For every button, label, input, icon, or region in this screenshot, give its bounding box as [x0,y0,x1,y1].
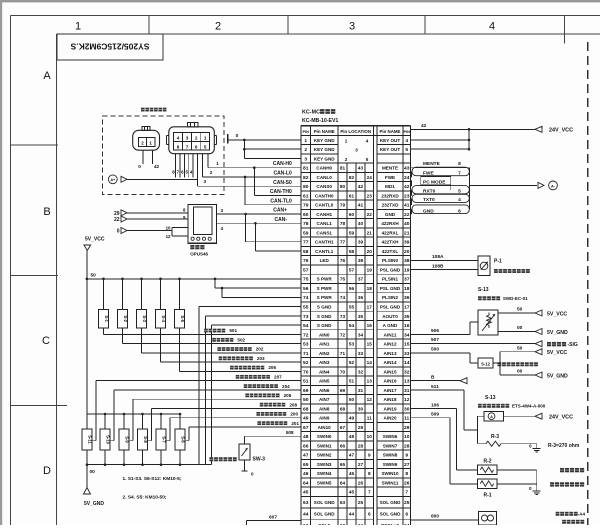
svg-text:1: 1 [345,138,348,143]
pressure sensor S-4 [159,278,162,281]
svg-text:SOL GND: SOL GND [314,512,336,517]
svg-text:52: 52 [303,360,309,366]
svg-text:1: 1 [149,141,152,146]
svg-text:CAN-H0: CAN-H0 [273,161,292,167]
svg-text:36: 36 [358,295,364,300]
connector J2 (8-pin) body [169,127,215,154]
svg-text:RXT0: RXT0 [423,189,436,195]
svg-text:-SIG: -SIG [567,342,577,348]
svg-text:46: 46 [303,471,309,477]
connector J2 latch [188,122,199,127]
5V_GND symbol [86,465,88,488]
pressure sensor S-3 [140,278,143,281]
GND connector bar [412,205,469,214]
svg-text:5: 5 [405,147,408,153]
svg-text:AIN17: AIN17 [383,388,396,393]
svg-text:10: 10 [404,434,410,440]
connector J1 pin stub 0 [142,150,144,164]
pilot pressure sensor S-12 [478,358,493,368]
svg-text:CANH0: CANH0 [316,166,332,171]
svg-text:204: 204 [282,384,290,389]
5V bus to lower sensors [87,413,180,415]
svg-text:39: 39 [404,240,410,246]
FWE connector bar [412,167,469,176]
svg-text:202: 202 [256,347,264,352]
svg-text:9: 9 [368,453,371,458]
svg-text:SWIN4: SWIN4 [317,471,332,476]
svg-text:CANTL1: CANTL1 [315,249,334,254]
svg-text:53: 53 [349,342,355,347]
svg-text:82: 82 [349,175,355,180]
svg-text:422RXL: 422RXL [382,230,399,235]
svg-text:57: 57 [349,268,355,273]
grid row tick C|D [11,405,68,407]
svg-text:2: 2 [141,141,144,146]
svg-text:35: 35 [404,314,410,320]
svg-text:AIN16: AIN16 [383,379,396,384]
oil temp sensor left vertical [477,415,484,417]
oil temp sensor to 24V_VCC [504,415,535,417]
svg-text:00: 00 [90,469,96,475]
svg-text:17: 17 [404,305,410,311]
svg-text:FWE: FWE [385,175,395,180]
svg-text:48: 48 [349,434,355,439]
svg-text:0: 0 [529,486,532,491]
svg-text:CANS1: CANS1 [316,230,332,235]
svg-text:PIN: PIN [302,129,309,134]
svg-text:44: 44 [303,512,309,518]
S-12 to 5V_GND [500,374,535,376]
svg-text:AIN13: AIN13 [383,351,396,356]
svg-text:33: 33 [404,351,410,357]
svg-text:507: 507 [431,337,439,343]
svg-text:Pin NAME: Pin NAME [380,129,401,134]
svg-text:PSL GND: PSL GND [380,305,401,310]
svg-text:0: 0 [529,444,532,449]
svg-text:28: 28 [404,443,410,449]
svg-text:5: 5 [366,157,369,162]
svg-text:53: 53 [303,342,309,348]
svg-text:4: 4 [405,138,408,144]
svg-text:20: 20 [367,249,373,254]
svg-text:75: 75 [303,277,309,283]
svg-text:CANS0: CANS0 [316,184,332,189]
svg-text:A+: A+ [110,178,116,182]
svg-text:A: A [43,70,51,82]
svg-text:51: 51 [349,379,355,384]
pressure sensor S-9 [123,413,126,416]
svg-text:SW-3: SW-3 [253,457,266,463]
svg-text:32: 32 [404,369,410,375]
wire pin3 to CAN-S0 row80 [196,154,198,187]
svg-text:69: 69 [303,388,309,394]
svg-text:AIN11: AIN11 [384,332,397,337]
svg-text:34: 34 [404,332,410,338]
svg-text:42: 42 [154,164,160,169]
svg-text:17: 17 [367,305,373,310]
svg-text:8: 8 [177,144,180,149]
svg-text:24V_VCC: 24V_VCC [549,128,573,134]
svg-text:SWIN5: SWIN5 [317,480,332,485]
svg-text:S-2: S-2 [123,315,128,322]
svg-text:3: 3 [349,21,355,33]
wire 600 bottom row42 [411,519,479,521]
svg-text:64: 64 [340,480,346,485]
svg-text:3: 3 [204,179,207,184]
wire key to KEY GND row1 [228,139,301,141]
svg-text:C: C [42,335,50,347]
svg-text:201: 201 [291,421,299,426]
svg-text:21: 21 [404,230,410,236]
svg-text:KEY OUT: KEY OUT [380,138,401,143]
svg-text:81: 81 [340,166,346,171]
oil temp sensor body [484,411,504,421]
svg-text:AIN4: AIN4 [319,369,330,374]
svg-text:29: 29 [114,211,120,217]
svg-text:232TXD: 232TXD [382,203,400,208]
svg-text:5V_VCC: 5V_VCC [547,311,567,317]
svg-text:7: 7 [458,170,461,176]
svg-text:S PWR: S PWR [317,295,333,300]
svg-text:22: 22 [404,212,410,218]
svg-text:SOL GND: SOL GND [380,500,402,505]
svg-text:27: 27 [358,462,364,467]
svg-text:58: 58 [349,249,355,254]
svg-text:AIN5: AIN5 [319,379,330,384]
svg-text:14: 14 [404,360,410,366]
svg-text:77: 77 [340,240,346,245]
svg-text:MENTE: MENTE [382,166,398,171]
svg-text:MD1: MD1 [385,184,395,189]
svg-text:S-11: S-11 [88,435,93,444]
svg-text:35: 35 [358,314,364,319]
svg-text:R-3=270 ohm: R-3=270 ohm [548,443,580,449]
svg-text:S-12: S-12 [481,361,491,366]
svg-text:70: 70 [303,369,309,375]
svg-text:422TXH: 422TXH [382,240,400,245]
svg-text:S GND: S GND [317,305,332,310]
branch CAN-L0 to CAN-TL0 row79 [244,176,247,179]
svg-text:49: 49 [303,416,309,422]
svg-text:78: 78 [303,221,309,227]
svg-text:CANH1: CANH1 [316,212,332,217]
wire pin2 to CAN-L0 row82 [202,154,204,177]
svg-text:4: 4 [366,138,369,143]
wire A+ to pin3 [127,178,197,180]
svg-text:2: 2 [304,147,307,153]
svg-text:SWIN11: SWIN11 [382,480,399,485]
svg-text:S-13: S-13 [485,395,496,401]
connector J2 pin grid [174,133,210,151]
svg-text:SWIN9: SWIN9 [383,462,398,467]
svg-text:55: 55 [349,305,355,310]
svg-text:203: 203 [257,356,265,361]
svg-text:71: 71 [340,351,346,356]
svg-text:56: 56 [349,286,355,291]
grid column tick 2|3 [287,16,289,35]
svg-text:AIN6: AIN6 [319,388,330,393]
display pin3 wire CAN+ row60 [217,213,301,215]
00 ground rail [87,464,212,466]
svg-text:SWIN2: SWIN2 [317,453,332,458]
S-13 to 5V_VCC [498,312,535,314]
resistor R-1 [477,479,497,489]
svg-text:75: 75 [340,277,346,282]
grid column tick right of 4 [564,16,566,44]
grid column tick 3|4 [424,16,426,35]
svg-text:65: 65 [340,462,346,467]
svg-text:CAN-L0: CAN-L0 [273,171,292,177]
svg-text:27: 27 [404,462,410,468]
svg-text:7: 7 [186,144,189,149]
svg-text:52: 52 [349,360,355,365]
table rows text [303,138,410,529]
connector J1 (2-pin) body [133,130,160,150]
drawing frame inner border [57,33,600,35]
svg-text:18: 18 [404,286,410,292]
svg-text:AIN7: AIN7 [319,397,330,402]
svg-text:29: 29 [358,425,364,430]
svg-text:2: 2 [345,157,348,162]
svg-text:6: 6 [195,144,198,149]
svg-text:S-8: S-8 [143,436,148,443]
svg-text:18: 18 [367,286,373,291]
svg-text:PLSIN1: PLSIN1 [382,277,399,282]
svg-text:CANL0: CANL0 [317,175,333,180]
svg-text:108A: 108A [432,254,444,260]
svg-text:76: 76 [340,258,346,263]
S GND wire row54 [212,324,302,326]
svg-text:26: 26 [358,480,364,485]
svg-text:4: 4 [221,226,224,231]
svg-text:74: 74 [303,295,309,301]
svg-text:73: 73 [340,314,346,319]
svg-text:R-2: R-2 [483,459,491,465]
page scan edge left [0,0,2,525]
wire to off-page A- [469,184,537,186]
svg-text:502: 502 [237,337,245,342]
svg-text:S-10: S-10 [106,435,111,445]
svg-text:81: 81 [303,166,309,172]
svg-text:45: 45 [303,490,309,496]
svg-text:3: 3 [186,136,189,141]
svg-text:65: 65 [303,462,309,468]
svg-text:607: 607 [269,514,277,520]
pressure sensor S-10 [104,413,107,416]
level sensor S-13 body [478,310,498,335]
svg-text:4: 4 [177,136,180,141]
key line stub tick [227,134,229,143]
svg-text:15: 15 [367,342,373,347]
svg-text:1: 1 [204,136,207,141]
label oil pressure switch [209,457,213,461]
svg-text:26: 26 [404,480,410,486]
junction key row1 [243,139,246,142]
svg-text:CAN+: CAN+ [273,208,287,214]
svg-text:43: 43 [404,166,410,172]
svg-text:63: 63 [303,500,309,506]
svg-text:AIN9: AIN9 [319,416,330,421]
svg-text:5V_VCC: 5V_VCC [547,350,567,356]
svg-text:232RXD: 232RXD [381,193,399,198]
svg-text:KEY OUT: KEY OUT [380,147,401,152]
svg-text:R-1: R-1 [483,493,491,499]
svg-text:36: 36 [404,295,410,301]
grid row tick B|C [11,274,59,276]
svg-text:49: 49 [349,416,355,421]
svg-text:59: 59 [303,230,309,236]
svg-text:506: 506 [431,328,439,334]
svg-text:S-6: S-6 [181,436,186,443]
svg-text:3: 3 [221,208,224,213]
S-13 to 5V_GND [498,331,535,333]
svg-text:74: 74 [340,295,346,300]
svg-text:0: 0 [236,133,239,139]
wire 0 to pins 10 12 [127,230,172,232]
wire 500 row24 [411,352,471,354]
svg-text:CAN-TL0: CAN-TL0 [270,198,292,204]
svg-text:10: 10 [166,226,171,231]
svg-text:40: 40 [404,221,410,227]
svg-text:600: 600 [431,513,439,519]
diagnostic interface label [141,108,145,112]
svg-text:50: 50 [517,307,523,313]
svg-text:47: 47 [349,453,355,458]
svg-text:0: 0 [251,472,254,477]
svg-text:50: 50 [517,345,523,351]
branch CAN- to row58 [254,222,257,225]
svg-text:SWIN3: SWIN3 [317,462,332,467]
svg-text:54: 54 [349,323,355,328]
svg-text:13: 13 [404,379,410,385]
svg-text:10: 10 [367,434,373,439]
svg-text:29: 29 [404,425,410,431]
svg-text:7: 7 [368,490,371,495]
svg-text:S-4: S-4 [161,315,166,322]
svg-text:31: 31 [404,388,410,394]
svg-text:68: 68 [340,406,346,411]
svg-text:1. S1-S3. S6-S12: KM10-5;: 1. S1-S3. S6-S12: KM10-5; [123,476,182,482]
svg-text:500: 500 [431,346,439,352]
svg-text:AIN20: AIN20 [383,416,396,421]
svg-text:60: 60 [303,212,309,218]
MENTE wire [411,167,470,169]
svg-text:AIN19: AIN19 [383,406,396,411]
wire 106 row30 [411,407,457,409]
svg-text:30: 30 [358,406,364,411]
svg-text:8: 8 [405,471,408,477]
svg-text:13: 13 [367,379,373,384]
svg-text:S-1: S-1 [104,315,109,322]
svg-text:106: 106 [431,402,439,408]
svg-text:16: 16 [367,323,373,328]
svg-text:PC MODE: PC MODE [423,180,446,186]
svg-text:SOL GND: SOL GND [380,512,402,517]
svg-text:A GND: A GND [383,323,398,328]
svg-text:5V_GND: 5V_GND [84,501,104,507]
display module label [190,245,194,249]
svg-text:SY205/215C9M2K.S: SY205/215C9M2K.S [70,42,149,52]
svg-text:MENTE: MENTE [423,161,441,167]
svg-text:48: 48 [303,434,309,440]
svg-text:S-3: S-3 [142,315,147,322]
svg-text:60: 60 [349,212,355,217]
svg-text:AIN15: AIN15 [383,369,396,374]
svg-text:GND: GND [423,208,434,214]
svg-text:51: 51 [303,379,309,385]
MENTE block spine [468,168,470,209]
RXT0 connector bar [412,186,469,194]
page scan edge top [0,0,600,2]
svg-text:23: 23 [367,193,373,198]
svg-text:67: 67 [340,425,346,430]
svg-text:59: 59 [349,230,355,235]
drawing frame outer border [11,15,600,17]
svg-text:5V_GND: 5V_GND [547,374,568,380]
pressure sensor S-8 [141,413,144,416]
wire 29 to pin8 [127,212,188,214]
svg-text:AIN18: AIN18 [383,397,396,402]
svg-text:00: 00 [517,369,523,375]
svg-text:CANL1: CANL1 [317,221,333,226]
svg-text:58: 58 [303,249,309,255]
svg-text:30: 30 [404,406,410,412]
svg-text:AIN10: AIN10 [318,425,331,430]
title block SY205/215C9M2K.S (rotated) [57,34,163,60]
svg-text:0: 0 [117,229,120,235]
svg-text:0: 0 [138,164,141,169]
svg-text:25: 25 [358,500,364,505]
svg-text:501: 501 [229,328,237,333]
svg-text:79: 79 [303,203,309,209]
svg-text:207: 207 [274,374,282,379]
svg-text:47: 47 [303,453,309,459]
R-1 wire to ground [497,483,537,485]
svg-text:6: 6 [458,208,461,214]
svg-text:CANTH0: CANTH0 [315,193,334,198]
svg-text:108B: 108B [432,263,444,269]
svg-text:PIN: PIN [403,129,410,134]
svg-text:511: 511 [431,384,439,390]
wire 507 throttle row23 [411,343,536,345]
PC MODE box [421,176,451,185]
svg-text:S-7: S-7 [162,436,167,443]
svg-text:37: 37 [404,277,410,283]
svg-text:55: 55 [303,305,309,311]
svg-text:24: 24 [367,175,373,180]
svg-text:-A4: -A4 [578,512,586,517]
svg-text:1: 1 [216,161,219,166]
wire 511 row28 [411,389,465,391]
svg-text:12: 12 [166,234,171,239]
svg-text:40: 40 [358,221,364,226]
display module OPUS46 body [188,204,217,243]
svg-text:42: 42 [421,123,427,129]
svg-text:422TXL: 422TXL [382,249,399,254]
svg-text:D: D [43,465,51,477]
svg-text:422RXH: 422RXH [381,221,399,226]
svg-text:S GND: S GND [317,323,332,328]
svg-text:S PWR: S PWR [317,286,333,291]
svg-text:Pin NAME: Pin NAME [314,129,335,134]
svg-text:CAN-: CAN- [275,217,288,223]
wires rows 1 2 to 24V junction [411,139,470,141]
svg-text:54: 54 [303,323,309,329]
svg-text:CAN-TH0: CAN-TH0 [270,189,292,195]
svg-text:69: 69 [340,388,346,393]
svg-text:SWIN10: SWIN10 [381,471,399,476]
svg-text:24: 24 [404,175,410,181]
